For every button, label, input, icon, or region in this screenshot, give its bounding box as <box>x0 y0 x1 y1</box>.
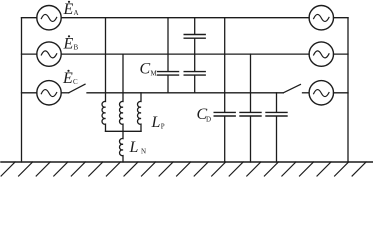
ground <box>1 162 373 176</box>
svg-text:E: E <box>63 1 74 18</box>
svg-text:D: D <box>206 116 211 124</box>
svg-text:E: E <box>62 70 73 87</box>
wire right A stub <box>334 17 349 19</box>
wire column 4 (x=250.5, B to ground) <box>250 54 252 162</box>
wire right B stub <box>334 53 349 55</box>
wire column 1 (x=168, A to C) <box>167 18 169 93</box>
wire phase A left stub <box>22 17 37 19</box>
wire column 5 (x=276.5, C to ground) <box>276 93 278 162</box>
label L_N <box>129 139 147 156</box>
inductor L_P 3 (x=141, from phase C) <box>137 93 141 132</box>
wire phase C <box>87 92 283 94</box>
capacitor C_D c (x=276.5) <box>266 112 287 116</box>
wire column 2 (x=194.7, A to C) <box>194 18 196 93</box>
capacitor C_D a (x=224.7) <box>214 112 235 116</box>
source E_B <box>37 42 61 66</box>
capacitor C_M a (x=168, B-C) <box>158 72 179 76</box>
wire phase B <box>61 53 309 55</box>
inductor L_N (x=123) <box>119 131 123 162</box>
source E_C <box>37 81 61 105</box>
switch S1 (left, phase C) <box>61 84 85 93</box>
inductor L_P 2 (x=123, from phase B) <box>119 54 123 131</box>
source right A <box>309 6 333 30</box>
wire left bus vertical <box>21 18 23 162</box>
wire phase A <box>61 17 309 19</box>
svg-text:N: N <box>141 148 146 156</box>
svg-text:P: P <box>161 123 165 131</box>
label C_M <box>140 61 158 78</box>
svg-text:M: M <box>151 70 158 78</box>
label E_C <box>62 70 78 87</box>
source E_A <box>37 6 61 30</box>
wire right C stub <box>334 92 349 94</box>
svg-text:L: L <box>151 114 161 131</box>
wire column 3 (x=224.7, A to ground) <box>224 18 226 162</box>
wire phase C left stub <box>22 92 37 94</box>
label E_A <box>63 1 79 18</box>
label E_B <box>63 35 79 52</box>
svg-text:E: E <box>63 36 74 53</box>
inductor L_P 1 (x=105.5, from phase A) <box>102 18 106 132</box>
svg-text:A: A <box>74 9 79 17</box>
capacitor C_M b (x=194.7, A-B) <box>184 35 205 39</box>
svg-text:L: L <box>129 139 139 156</box>
switch S2 (right, phase C) <box>283 85 309 93</box>
source right C <box>309 81 333 105</box>
svg-text:C: C <box>140 61 151 78</box>
svg-text:B: B <box>74 44 79 52</box>
label L_P <box>151 114 165 131</box>
label C_D <box>197 106 212 124</box>
capacitor C_D b (x=250.5) <box>240 112 261 116</box>
wire phase B left stub <box>22 53 37 55</box>
source right B <box>309 42 333 66</box>
wire neutral bar <box>106 130 142 132</box>
capacitor C_M c (x=194.7, B-C) <box>184 72 205 76</box>
svg-text:C: C <box>73 78 78 86</box>
wire right bus vertical <box>347 18 349 162</box>
